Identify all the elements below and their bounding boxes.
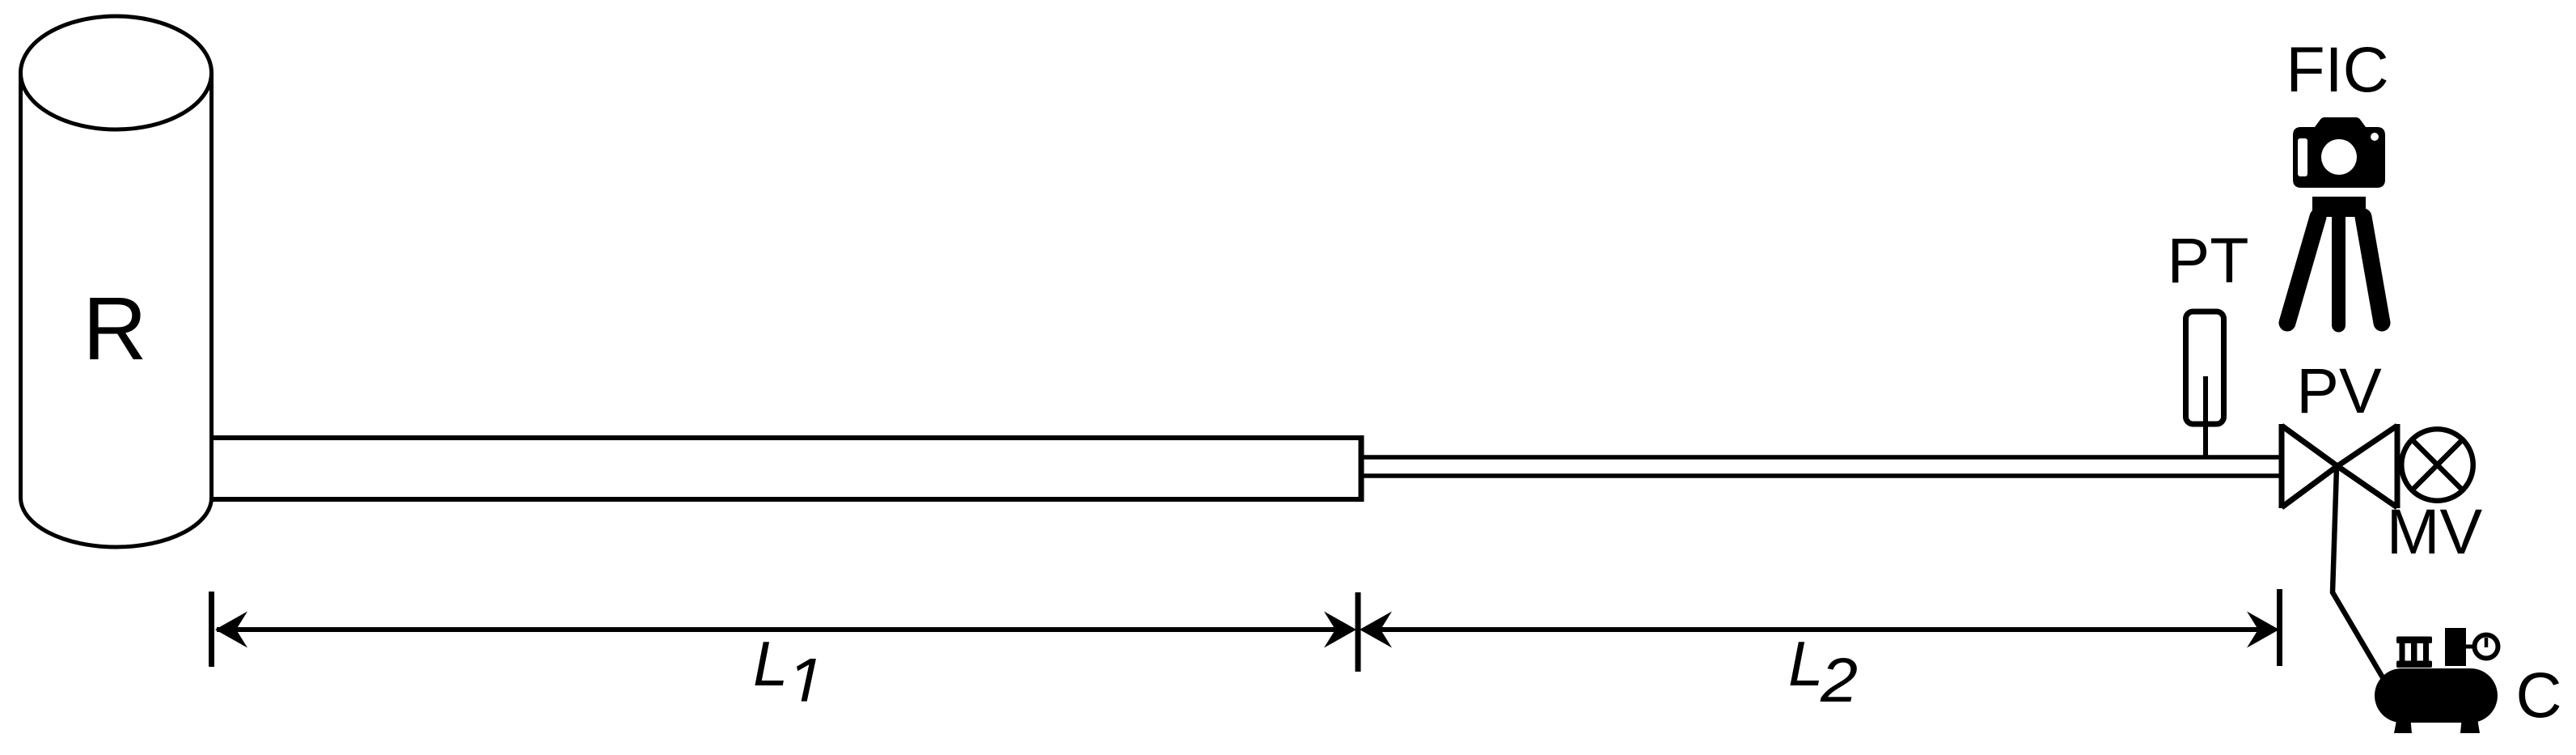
dimension line L2 (1364, 627, 2274, 632)
svg-text:PT: PT (2168, 224, 2249, 296)
compressor cooler column 2 (2411, 642, 2417, 662)
compressor left foot (2394, 708, 2412, 733)
valve PV left triangle (2282, 426, 2337, 507)
compressor cooler column 3 (2423, 642, 2429, 662)
pipe L1 top wall (212, 435, 1362, 440)
camera grip bar (white) (2298, 138, 2307, 176)
tripod center leg (2332, 209, 2345, 325)
dimension tick left (209, 592, 214, 667)
svg-text:2: 2 (1820, 646, 1858, 715)
dimension tick right (2277, 589, 2282, 666)
dimension line L1 (217, 627, 1352, 632)
tripod left leg (2287, 217, 2318, 323)
MV cross line 1 (2413, 440, 2462, 490)
arrowhead L1 left (215, 612, 247, 648)
camera flash dot (white) (2371, 133, 2379, 141)
svg-text:L: L (1788, 628, 1823, 699)
arrowhead L1 right (1324, 612, 1356, 648)
pipe L2 top wall (1361, 455, 2280, 460)
svg-text:PV: PV (2296, 354, 2382, 426)
compressor gauge (2475, 635, 2498, 659)
compressor cooler bottom bar (2396, 661, 2432, 668)
camera FIC body (2293, 117, 2385, 188)
gauge connector (2466, 645, 2476, 649)
svg-text:C: C (2515, 659, 2561, 731)
svg-text:FIC: FIC (2286, 33, 2388, 105)
valve PV right triangle (2337, 426, 2397, 507)
tripod mount (2312, 197, 2366, 217)
tripod right leg (2363, 217, 2382, 323)
reservoir R bottom arc (21, 498, 212, 547)
valve PV right bar (2395, 424, 2400, 508)
arrowhead L2 right (2247, 612, 2279, 648)
dimension tick middle (1356, 592, 1361, 672)
compressor right foot (2460, 708, 2480, 733)
valve PV left bar (2279, 424, 2285, 508)
reservoir R right wall (209, 73, 214, 498)
compressor C tank (2375, 668, 2498, 723)
pressure transducer PT body (2186, 312, 2224, 424)
compressor cooler top bar (2396, 637, 2432, 644)
gauge needle (2485, 638, 2489, 647)
camera lens (white) (2321, 139, 2357, 175)
reservoir R top ellipse (21, 16, 212, 129)
pipe L1 end cap (1359, 435, 1364, 502)
pipe L2 bottom wall (1361, 473, 2280, 478)
svg-text:L: L (753, 628, 788, 699)
PT probe line (2203, 376, 2208, 456)
compressor motor block (2445, 628, 2466, 666)
compressor cooler column 1 (2400, 642, 2405, 662)
motor indicator MV circle (2401, 429, 2473, 501)
arrowhead L2 left (1360, 612, 1392, 648)
MV cross line 2 (2413, 440, 2462, 490)
svg-text:MV: MV (2387, 495, 2483, 567)
reservoir R left wall (19, 73, 23, 498)
svg-text:R: R (82, 279, 146, 379)
hose from valve to compressor (2333, 468, 2384, 679)
pipe L1 bottom wall (212, 497, 1362, 502)
